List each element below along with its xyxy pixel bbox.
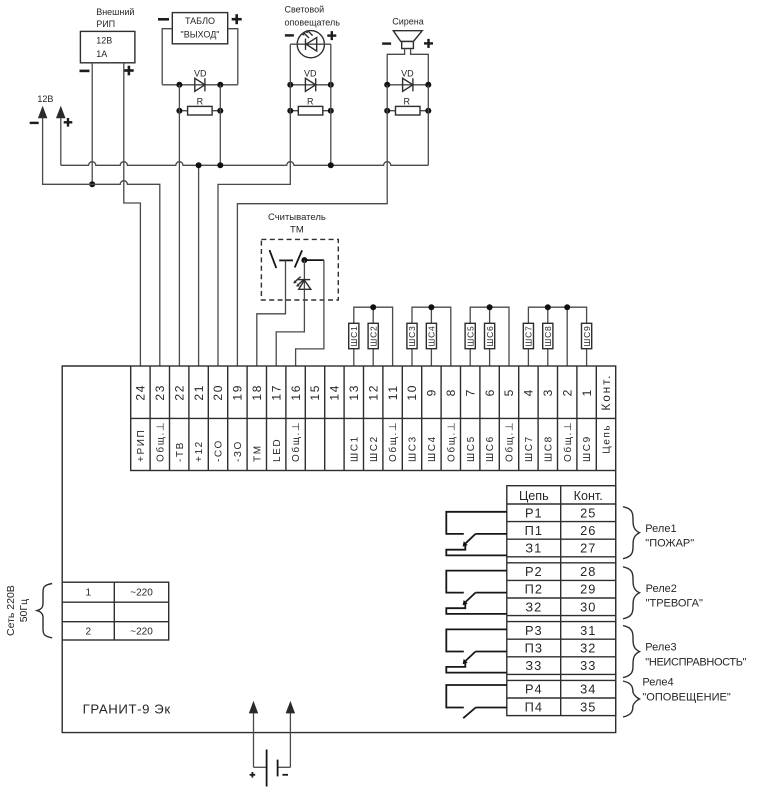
svg-text:16: 16 bbox=[289, 384, 303, 401]
svg-text:Общ.⊥: Общ.⊥ bbox=[387, 421, 399, 462]
svg-text:ШС5: ШС5 bbox=[466, 435, 477, 462]
svg-text:Общ.⊥: Общ.⊥ bbox=[290, 421, 302, 462]
svg-text:29: 29 bbox=[580, 582, 596, 597]
svg-text:ШС1: ШС1 bbox=[349, 325, 359, 346]
wire TM contact to terminal 18 bbox=[257, 260, 286, 366]
svg-text:26: 26 bbox=[580, 523, 596, 538]
label Сеть 220В 50Гц bbox=[5, 585, 30, 636]
wire common Общ line: 12В minus arrow to terminal 23 bbox=[43, 118, 160, 367]
svg-text:ШС6: ШС6 bbox=[485, 435, 496, 462]
svg-text:14: 14 bbox=[328, 384, 342, 401]
svg-text:ШС3: ШС3 bbox=[408, 435, 419, 462]
svg-text:1: 1 bbox=[86, 588, 92, 599]
battery 12V backup bbox=[249, 701, 295, 787]
svg-text:+12: +12 bbox=[194, 440, 205, 462]
svg-text:23: 23 bbox=[153, 384, 167, 401]
svg-text:Конт.: Конт. bbox=[574, 489, 603, 503]
svg-text:ШС8: ШС8 bbox=[543, 325, 553, 346]
svg-text:ШС8: ШС8 bbox=[543, 435, 554, 462]
svg-text:15: 15 bbox=[308, 384, 322, 401]
svg-text:11: 11 bbox=[386, 384, 400, 400]
svg-text:R: R bbox=[404, 96, 411, 106]
svg-text:Сирена: Сирена bbox=[392, 17, 424, 27]
svg-text:Реле2: Реле2 bbox=[646, 583, 677, 595]
svg-text:35: 35 bbox=[580, 699, 596, 714]
wire РИП plus lead to terminal 24 bbox=[124, 63, 141, 366]
svg-text:ТАБЛО: ТАБЛО bbox=[185, 16, 215, 26]
svg-text:~220: ~220 bbox=[130, 588, 153, 599]
svg-text:19: 19 bbox=[231, 384, 245, 401]
svg-text:Общ.⊥: Общ.⊥ bbox=[562, 421, 574, 462]
device outline ГРАНИТ-9 Эк bbox=[62, 366, 616, 733]
svg-text:ШС9: ШС9 bbox=[582, 325, 592, 346]
svg-text:ШС9: ШС9 bbox=[582, 435, 593, 462]
svg-text:ТМ: ТМ bbox=[252, 444, 263, 462]
diode VD (siren) bbox=[384, 69, 431, 92]
svg-text:~220: ~220 bbox=[130, 627, 153, 638]
svg-text:П3: П3 bbox=[525, 641, 543, 656]
relay contact K4 (Реле4) bbox=[446, 685, 507, 718]
svg-text:33: 33 bbox=[580, 658, 596, 673]
svg-text:1А: 1А bbox=[96, 49, 107, 59]
svg-text:5: 5 bbox=[502, 388, 516, 396]
svg-text:7: 7 bbox=[463, 388, 477, 396]
svg-text:РИП: РИП bbox=[96, 19, 115, 29]
svg-text:Цепь: Цепь bbox=[602, 424, 613, 454]
svg-text:Р1: Р1 bbox=[525, 505, 543, 520]
svg-text:Общ.⊥: Общ.⊥ bbox=[504, 421, 516, 462]
svg-text:+РИП: +РИП bbox=[136, 429, 147, 462]
wire tablo minus lead bbox=[162, 29, 172, 85]
svg-text:Конт.: Конт. bbox=[599, 374, 613, 411]
svg-text:Общ.⊥: Общ.⊥ bbox=[154, 421, 166, 462]
svg-text:ШС5: ШС5 bbox=[465, 325, 475, 346]
brace and label Реле4 ОПОВЕЩЕНИЕ bbox=[623, 677, 731, 717]
svg-text:28: 28 bbox=[580, 564, 596, 579]
wire tablo plus lead bbox=[228, 29, 238, 85]
svg-text:"ТРЕВОГА": "ТРЕВОГА" bbox=[646, 598, 703, 610]
mains table Сеть 220В 50Гц bbox=[62, 582, 169, 640]
svg-text:-ЗО: -ЗО bbox=[233, 440, 244, 462]
svg-text:"ПОЖАР": "ПОЖАР" bbox=[645, 537, 694, 549]
relay contact K3 (Реле3) bbox=[446, 629, 507, 672]
wire siren minus lead bbox=[387, 49, 404, 85]
svg-text:Реле4: Реле4 bbox=[642, 677, 673, 689]
svg-text:"ВЫХОД": "ВЫХОД" bbox=[181, 30, 220, 40]
svg-text:2: 2 bbox=[86, 627, 92, 638]
svg-text:12В: 12В bbox=[37, 94, 53, 104]
svg-text:Внешний: Внешний bbox=[96, 7, 134, 17]
svg-text:Световой: Световой bbox=[285, 4, 325, 14]
svg-text:ШС4: ШС4 bbox=[427, 325, 437, 346]
svg-text:"ОПОВЕЩЕНИЕ": "ОПОВЕЩЕНИЕ" bbox=[642, 692, 730, 704]
EOL resistor ШС4 bbox=[426, 323, 436, 366]
svg-text:1: 1 bbox=[580, 388, 594, 396]
svg-text:13: 13 bbox=[347, 384, 361, 401]
svg-text:Считыватель: Считыватель bbox=[268, 212, 326, 223]
svg-text:З3: З3 bbox=[525, 658, 542, 673]
svg-text:Цепь: Цепь bbox=[519, 489, 549, 503]
svg-text:3: 3 bbox=[541, 388, 555, 396]
svg-text:27: 27 bbox=[580, 541, 596, 556]
wire link bar ШС group 3 to common terminal bbox=[470, 304, 509, 366]
svg-text:З1: З1 bbox=[525, 541, 542, 556]
svg-text:П4: П4 bbox=[525, 699, 543, 714]
svg-text:ГРАНИТ-9 Эк: ГРАНИТ-9 Эк bbox=[83, 702, 171, 717]
relay contact K1 (Реле1) bbox=[446, 512, 507, 556]
svg-text:VD: VD bbox=[401, 69, 414, 79]
svg-text:ШС2: ШС2 bbox=[368, 325, 378, 346]
svg-text:R: R bbox=[197, 96, 204, 106]
svg-text:22: 22 bbox=[172, 384, 186, 401]
EOL resistor ШС6 bbox=[485, 323, 495, 366]
external PSU Внешний РИП 12В 1А bbox=[80, 7, 135, 75]
EOL resistor ШС1 bbox=[349, 323, 359, 366]
svg-text:З2: З2 bbox=[525, 599, 542, 614]
svg-text:9: 9 bbox=[425, 388, 439, 396]
EOL resistor ШС3 bbox=[407, 323, 417, 366]
svg-text:21: 21 bbox=[192, 384, 206, 401]
svg-text:17: 17 bbox=[269, 384, 283, 401]
wire РИП minus lead to common bbox=[89, 63, 95, 188]
svg-text:Реле3: Реле3 bbox=[645, 642, 676, 654]
resistor R (siren) bbox=[384, 96, 431, 115]
wire light plus to +12 bus bbox=[328, 44, 334, 168]
TM reader Считыватель ТМ (dashed box) bbox=[261, 212, 338, 300]
svg-text:25: 25 bbox=[580, 505, 596, 520]
indicator board ТАБЛО "ВЫХОД" bbox=[158, 13, 242, 44]
svg-text:20: 20 bbox=[211, 384, 225, 401]
svg-text:VD: VD bbox=[194, 69, 207, 79]
svg-text:VD: VD bbox=[304, 69, 317, 79]
resistor R (tablo) bbox=[176, 96, 223, 115]
wire link bar ШС group 2 to common terminal bbox=[412, 304, 451, 366]
wire light minus to terminal 20 bbox=[218, 44, 290, 366]
siren Сирена (loudspeaker) bbox=[382, 17, 433, 49]
svg-text:Сеть 220В: Сеть 220В bbox=[5, 585, 17, 636]
svg-text:10: 10 bbox=[405, 384, 419, 401]
TM contact probes bbox=[270, 250, 324, 268]
svg-text:-СО: -СО bbox=[214, 439, 225, 462]
svg-text:Р2: Р2 bbox=[525, 564, 543, 579]
svg-text:R: R bbox=[307, 96, 314, 106]
resistor R (light) bbox=[287, 96, 334, 115]
EOL resistor ШС5 bbox=[465, 323, 475, 366]
terminal strip X1 bbox=[131, 366, 616, 471]
wire +12 bus: 12В plus arrow across to siren plus bbox=[61, 118, 429, 166]
wire siren minus to terminal 19 bbox=[237, 85, 387, 366]
wire siren plus lead bbox=[411, 49, 429, 85]
wire siren plus to +12 bus end bbox=[427, 85, 429, 166]
svg-text:24: 24 bbox=[134, 384, 148, 401]
wire drop to terminal 21 (+12) bbox=[196, 162, 202, 366]
EOL resistor ШС8 bbox=[543, 323, 553, 366]
wire TM LED to terminal 17 bbox=[276, 289, 304, 366]
svg-text:ШС3: ШС3 bbox=[407, 325, 417, 346]
svg-text:П1: П1 bbox=[525, 523, 543, 538]
svg-text:12: 12 bbox=[366, 384, 380, 401]
svg-text:П2: П2 bbox=[525, 582, 543, 597]
diode VD (tablo) bbox=[162, 69, 238, 92]
svg-text:6: 6 bbox=[483, 388, 497, 396]
svg-text:4: 4 bbox=[522, 388, 536, 396]
svg-text:ШС6: ШС6 bbox=[485, 325, 495, 346]
EOL resistor ШС2 bbox=[368, 323, 378, 366]
light annunciator Световой оповещатель (LED in circle) bbox=[285, 4, 341, 58]
EOL resistor ШС9 bbox=[582, 323, 592, 366]
svg-text:Общ.⊥: Общ.⊥ bbox=[445, 421, 457, 462]
svg-text:50Гц: 50Гц bbox=[18, 599, 30, 622]
node 12В output arrows bbox=[30, 94, 73, 126]
svg-text:LED: LED bbox=[272, 438, 283, 462]
EOL resistor ШС7 bbox=[523, 323, 533, 366]
svg-text:Р3: Р3 bbox=[525, 623, 543, 638]
svg-text:ШС4: ШС4 bbox=[427, 435, 438, 462]
svg-text:"НЕИСПРАВНОСТЬ": "НЕИСПРАВНОСТЬ" bbox=[645, 656, 746, 668]
svg-text:ШС7: ШС7 bbox=[524, 325, 534, 346]
svg-text:Реле1: Реле1 bbox=[645, 523, 676, 535]
relay output table Цепь/Конт bbox=[507, 486, 616, 716]
svg-text:ШС2: ШС2 bbox=[369, 435, 380, 462]
brace Сеть bbox=[37, 584, 52, 638]
svg-text:оповещатель: оповещатель bbox=[285, 17, 341, 27]
wire link bar ШС group 1 to common terminal bbox=[354, 304, 393, 366]
svg-text:-ТВ: -ТВ bbox=[175, 441, 186, 462]
brace and label Реле2 ТРЕВОГА bbox=[623, 567, 703, 619]
svg-text:8: 8 bbox=[444, 388, 458, 396]
svg-text:2: 2 bbox=[560, 388, 574, 396]
diode VD (light) bbox=[287, 69, 334, 92]
svg-text:ШС7: ШС7 bbox=[524, 435, 535, 462]
brace and label Реле3 НЕИСПРАВНОСТЬ bbox=[623, 626, 747, 678]
svg-text:12В: 12В bbox=[96, 36, 112, 46]
wire link bar ШС group 4 (ШС7 ШС8 ШС9) to common terminal 2 bbox=[528, 304, 586, 366]
svg-text:30: 30 bbox=[580, 599, 596, 614]
svg-text:31: 31 bbox=[580, 623, 596, 638]
LED diode inside TM reader bbox=[293, 260, 311, 289]
brace and label Реле1 ПОЖАР bbox=[623, 507, 694, 559]
wire tablo minus to terminal 22 bbox=[178, 85, 180, 366]
svg-text:ШС1: ШС1 bbox=[349, 435, 360, 462]
svg-text:32: 32 bbox=[580, 641, 596, 656]
svg-text:Р4: Р4 bbox=[525, 682, 543, 697]
wire TM common to terminal 16 bbox=[296, 260, 324, 366]
wire tablo plus to +12 bus bbox=[217, 85, 223, 169]
svg-text:34: 34 bbox=[580, 682, 596, 697]
relay contact K2 (Реле2) bbox=[446, 571, 507, 614]
svg-text:ТМ: ТМ bbox=[290, 224, 304, 235]
svg-text:18: 18 bbox=[250, 384, 264, 401]
